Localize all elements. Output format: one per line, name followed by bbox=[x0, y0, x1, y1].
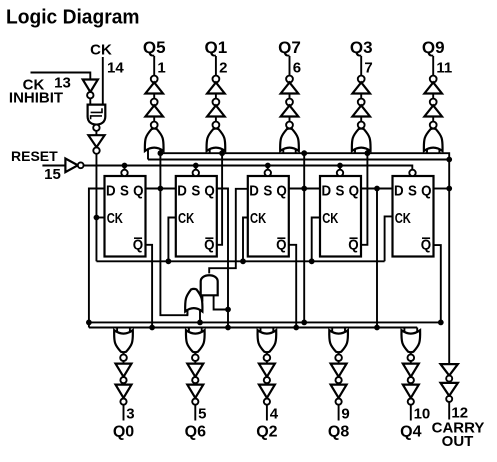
svg-text:Q: Q bbox=[276, 182, 287, 199]
wire gate to inverter bbox=[95, 131, 97, 135]
inverter (Q2 chain, 1st) bbox=[259, 364, 275, 377]
svg-text:1: 1 bbox=[157, 60, 165, 77]
svg-text:INHIBIT: INHIBIT bbox=[9, 90, 63, 107]
wire clock bus bbox=[96, 260, 384, 262]
NOR gate (Q4 chain) bbox=[401, 330, 420, 352]
node clock-CK2 bbox=[166, 258, 172, 264]
NOR left input leg (Q2) bbox=[260, 328, 262, 333]
node clock-CK1 bbox=[94, 215, 100, 221]
inverter (Q4 chain, 1st) bbox=[403, 364, 419, 377]
wire Q5 to carry bus bbox=[434, 188, 450, 190]
pin 9 wire bbox=[338, 350, 340, 421]
inverter (Q4 chain, 2nd) bbox=[403, 385, 419, 398]
wire clock riser bbox=[95, 154, 97, 262]
pin 7 wire bbox=[360, 56, 362, 129]
pin 1 wire bbox=[153, 56, 155, 129]
node Q3 bus1 bbox=[301, 320, 307, 326]
pin 6 wire bbox=[289, 56, 291, 129]
svg-text:11: 11 bbox=[436, 60, 452, 77]
inverter bubble (Q5 chain, out) bbox=[151, 76, 158, 83]
svg-text:RESET: RESET bbox=[11, 148, 58, 164]
svg-text:Logic Diagram: Logic Diagram bbox=[6, 7, 140, 29]
inverter (Q9 chain, 2nd) bbox=[424, 105, 442, 116]
inverter U-clk2 bbox=[88, 135, 104, 147]
node net-A Q3 bbox=[301, 150, 307, 156]
wire Q4bar riser bbox=[361, 153, 367, 245]
NOR bubble (Q2 chain) bbox=[264, 354, 271, 361]
wire CK3 elbow bbox=[243, 218, 248, 262]
inverter bubble (Q7 chain, out) bbox=[286, 76, 293, 83]
schmitt AND gate U-clk bbox=[88, 105, 106, 125]
inverter bubble (Q1 chain, mid) bbox=[213, 99, 220, 106]
wire Q4 tap bbox=[376, 189, 378, 328]
FF5 set bubble bbox=[409, 170, 415, 176]
node AND-Q2tap bbox=[225, 307, 231, 313]
inverter bubble (Q8 chain, out) bbox=[336, 399, 342, 405]
NOR gate (Q8 chain) bbox=[329, 330, 348, 352]
svg-text:Q5: Q5 bbox=[143, 38, 166, 57]
inverter (Q1 chain, 1st) bbox=[207, 82, 225, 93]
NOR right input leg (Q4) bbox=[416, 328, 418, 333]
inverter bubble (Q6 chain, out) bbox=[192, 399, 198, 405]
svg-text:CK: CK bbox=[90, 42, 112, 59]
wire S3 to reset net bbox=[267, 166, 269, 170]
svg-text:CK: CK bbox=[178, 211, 195, 227]
NOR bubble (Q6 chain) bbox=[192, 354, 199, 361]
svg-text:S: S bbox=[263, 182, 272, 199]
svg-text:S: S bbox=[408, 182, 417, 199]
inverter (Q0 chain, 1st) bbox=[116, 364, 132, 377]
node net-A Q4bar bbox=[365, 150, 371, 156]
inverter (Q5 chain, 2nd) bbox=[145, 105, 163, 116]
NOR gate (Q5 chain) bbox=[145, 129, 164, 151]
svg-text:15: 15 bbox=[44, 166, 61, 183]
wire Q2 tap bbox=[217, 189, 228, 328]
svg-text:Q8: Q8 bbox=[328, 424, 349, 441]
svg-text:3: 3 bbox=[126, 406, 134, 423]
NOR right input leg (Q3) bbox=[366, 149, 368, 154]
svg-text:2: 2 bbox=[219, 60, 227, 77]
node clock-CK4 bbox=[309, 258, 315, 264]
svg-text:Q: Q bbox=[421, 237, 432, 254]
inverter bubble U-reset bbox=[78, 162, 84, 168]
FF3 set bubble bbox=[265, 170, 271, 176]
inverter U-inhibit bbox=[83, 80, 98, 93]
svg-text:14: 14 bbox=[107, 60, 124, 77]
inverter bubble (Q7 chain, mid) bbox=[286, 99, 293, 106]
FF1 set bubble bbox=[121, 170, 127, 176]
NOR bubble (Q3 chain) bbox=[358, 122, 365, 129]
svg-text:Q: Q bbox=[349, 182, 360, 199]
svg-text:D: D bbox=[394, 182, 404, 199]
NOR left input leg (Q3) bbox=[354, 149, 356, 154]
wire CK INHIBIT input bbox=[31, 73, 91, 80]
svg-text:S: S bbox=[120, 182, 129, 199]
svg-text:CK: CK bbox=[322, 211, 339, 227]
node Q3 bbox=[301, 186, 307, 192]
inverter bubble (Q4 chain, mid) bbox=[408, 377, 414, 383]
NOR left input leg (Q9) bbox=[426, 149, 428, 154]
wire S1 to reset net bbox=[124, 166, 126, 170]
svg-text:Q: Q bbox=[133, 237, 144, 254]
inverter (Q7 chain, 1st) bbox=[281, 82, 299, 93]
NOR gate (Q7 chain) bbox=[280, 129, 299, 151]
inverter bubble (Q9 chain, mid) bbox=[430, 99, 437, 106]
svg-text:S: S bbox=[191, 182, 200, 199]
pin 4 wire bbox=[266, 350, 268, 421]
node bus2 Q1bar bbox=[149, 325, 155, 331]
node net-A Q2bar bbox=[219, 150, 225, 156]
svg-text:Q1: Q1 bbox=[205, 38, 228, 57]
NOR gate (Q9 chain) bbox=[424, 129, 443, 151]
NOR right input leg (Q6) bbox=[201, 328, 203, 333]
pin 10 wire bbox=[410, 350, 412, 421]
inverter bubble (Q8 chain, mid) bbox=[336, 377, 342, 383]
NOR left input leg (Q7) bbox=[282, 149, 284, 154]
wire CK1 entry bbox=[96, 217, 104, 219]
wire D1 feedback elbow bbox=[89, 189, 105, 323]
wire CK4 elbow bbox=[312, 218, 320, 262]
wire CK pin 14 bbox=[102, 57, 104, 105]
FF4 set bubble bbox=[337, 170, 343, 176]
bus1-bus2 stub bbox=[88, 322, 90, 327]
NOR bubble (Q1 chain) bbox=[213, 122, 220, 129]
flip-flop FF3 bbox=[248, 176, 289, 257]
inverter (Q8 chain, 2nd) bbox=[331, 385, 347, 398]
wire Q2bar riser bbox=[217, 153, 222, 245]
wire OR left input bbox=[186, 309, 188, 315]
wire Q3 to D4 bbox=[289, 188, 320, 190]
svg-text:Q: Q bbox=[421, 182, 432, 199]
NOR left input leg (Q5) bbox=[147, 149, 149, 160]
NOR right input leg (Q7) bbox=[295, 149, 297, 154]
svg-text:Q9: Q9 bbox=[422, 38, 445, 57]
inverter U-reset bbox=[65, 159, 77, 173]
NOR left input leg (Q1) bbox=[209, 149, 211, 154]
svg-text:Q7: Q7 bbox=[278, 38, 301, 57]
inverter (Q2 chain, 2nd) bbox=[259, 385, 275, 398]
NOR left input leg (Q6) bbox=[188, 328, 190, 333]
wire RESET input bbox=[42, 165, 65, 167]
inverter (Q6 chain, 2nd) bbox=[187, 385, 203, 398]
svg-text:Q: Q bbox=[204, 182, 215, 199]
inverter (Q0 chain, 2nd) bbox=[116, 385, 132, 398]
wire Q3 riser bbox=[303, 153, 305, 322]
NOR left input leg (Q4) bbox=[403, 328, 405, 333]
inverter bubble (Q0 chain, out) bbox=[120, 399, 126, 405]
svg-text:OUT: OUT bbox=[442, 433, 474, 450]
node bus2 Q2tap bbox=[225, 325, 231, 331]
NOR left input leg (Q8) bbox=[331, 328, 333, 333]
inverter bubble (carry, mid) bbox=[446, 376, 452, 382]
svg-text:CK: CK bbox=[395, 211, 412, 227]
inverter bubble (Q1 chain, out) bbox=[213, 76, 220, 83]
node S3 bbox=[265, 163, 271, 169]
NOR gate (Q6 chain) bbox=[186, 330, 205, 352]
svg-text:D: D bbox=[249, 182, 259, 199]
inverter bubble (Q2 chain, mid) bbox=[264, 377, 270, 383]
node S4 bbox=[337, 163, 343, 169]
node carry netB bbox=[446, 157, 452, 163]
NOR right input leg (Q5) bbox=[159, 149, 161, 154]
pin 11 wire bbox=[432, 56, 434, 129]
svg-text:Q: Q bbox=[204, 237, 215, 254]
NOR right input leg (Q8) bbox=[344, 328, 346, 333]
NOR right input leg (Q1) bbox=[221, 149, 223, 154]
NOR bubble (Q7 chain) bbox=[286, 122, 293, 129]
inverter bubble (Q9 chain, out) bbox=[430, 76, 437, 83]
svg-text:CK: CK bbox=[107, 211, 124, 227]
svg-text:10: 10 bbox=[414, 406, 431, 423]
svg-text:9: 9 bbox=[341, 406, 349, 423]
wire AND left input bbox=[201, 295, 203, 301]
wire AND right input bbox=[214, 295, 228, 309]
NOR right input leg (Q2) bbox=[272, 328, 274, 333]
flip-flop FF4 bbox=[320, 176, 361, 257]
inverter bubble (Q2 chain, out) bbox=[264, 399, 270, 405]
svg-text:4: 4 bbox=[270, 406, 279, 423]
wire AND output bbox=[209, 189, 248, 274]
node OR-bus1 bbox=[197, 320, 203, 326]
svg-text:Q4: Q4 bbox=[400, 424, 421, 441]
node bus2 Q4tap bbox=[374, 325, 380, 331]
node S2 bbox=[193, 163, 199, 169]
svg-text:S: S bbox=[336, 182, 345, 199]
NOR left input leg (Q0) bbox=[116, 328, 118, 333]
svg-text:CK: CK bbox=[250, 211, 267, 227]
node Q1 bbox=[158, 186, 164, 192]
inverter bubble (Q0 chain, mid) bbox=[120, 377, 126, 383]
svg-text:Q: Q bbox=[348, 237, 359, 254]
wire Q1 to D2 bbox=[146, 188, 176, 190]
flip-flop FF1 bbox=[105, 176, 146, 257]
wire Q5bar drop bbox=[434, 245, 441, 322]
pin 5 wire bbox=[194, 350, 196, 421]
inverter bubble (Q6 chain, mid) bbox=[192, 377, 198, 383]
and-gate U-mid-AND bbox=[201, 275, 218, 295]
inverter (Q3 chain, 1st) bbox=[352, 82, 370, 93]
net B wire (Q5 feedback bus) bbox=[148, 159, 449, 161]
node clock-CK3 bbox=[240, 258, 246, 264]
node bus2 Q3bar bbox=[293, 325, 299, 331]
wire Q1bar drop bbox=[146, 245, 153, 328]
svg-text:Q0: Q0 bbox=[113, 424, 134, 441]
inverter (Q9 chain, 1st) bbox=[424, 82, 442, 93]
NOR gate (Q1 chain) bbox=[207, 129, 226, 151]
net A wire (gate input bus) bbox=[160, 152, 439, 154]
inverter bubble (Q3 chain, mid) bbox=[358, 99, 365, 106]
flip-flop FF5 bbox=[393, 176, 434, 257]
inverter (Q6 chain, 1st) bbox=[187, 364, 203, 377]
node Q4 bbox=[374, 186, 380, 192]
pin 12 wire bbox=[448, 364, 450, 420]
wire carry bus bbox=[439, 153, 449, 364]
or-gate U-mid-OR bbox=[185, 289, 202, 312]
wire Q3bar drop bbox=[289, 245, 296, 328]
bus2 wire bbox=[89, 327, 417, 329]
wire S2 to reset net bbox=[195, 166, 197, 170]
schmitt AND output bubble bbox=[93, 125, 99, 131]
svg-text:D: D bbox=[322, 182, 332, 199]
node bus1 right bbox=[438, 320, 444, 326]
node gate1 input bbox=[158, 150, 164, 156]
node S1 bbox=[122, 163, 128, 169]
wire inhibit to gate bbox=[89, 98, 91, 105]
NOR right input leg (Q0) bbox=[129, 328, 131, 333]
inverter bubble (Q4 chain, out) bbox=[408, 399, 414, 405]
NOR right input leg (Q9) bbox=[438, 149, 440, 154]
NOR bubble (Q0 chain) bbox=[120, 354, 127, 361]
NOR gate (Q2 chain) bbox=[258, 330, 277, 352]
FF2 set bubble bbox=[193, 170, 199, 176]
inverter bubble (carry, out) bbox=[446, 396, 452, 402]
svg-text:Q2: Q2 bbox=[256, 424, 277, 441]
inverter (carry, 1st) bbox=[441, 364, 458, 376]
inverter bubble (Q5 chain, mid) bbox=[151, 99, 158, 106]
inverter bubble U-clk2 bbox=[93, 147, 99, 153]
svg-text:Q3: Q3 bbox=[350, 38, 373, 57]
NOR gate (Q0 chain) bbox=[114, 330, 133, 352]
inverter (Q8 chain, 1st) bbox=[331, 364, 347, 377]
svg-text:Q: Q bbox=[276, 237, 287, 254]
NOR bubble (Q5 chain) bbox=[151, 122, 158, 129]
pin 2 wire bbox=[215, 56, 217, 129]
inverter bubble U-inhibit bbox=[87, 92, 93, 98]
svg-text:D: D bbox=[106, 182, 116, 199]
bus1 wire (Q5bar feedback) bbox=[89, 321, 441, 323]
node carry Q5 bbox=[446, 186, 452, 192]
inverter (carry, 2nd) bbox=[441, 383, 458, 396]
wire S4 to reset net bbox=[339, 166, 341, 170]
inverter (Q5 chain, 1st) bbox=[145, 82, 163, 93]
svg-text:Q6: Q6 bbox=[185, 424, 206, 441]
NOR gate (Q3 chain) bbox=[352, 129, 371, 151]
flip-flop FF2 bbox=[176, 176, 217, 257]
inverter bubble (Q3 chain, out) bbox=[358, 76, 365, 83]
inverter (Q1 chain, 2nd) bbox=[207, 105, 225, 116]
NOR bubble (Q8 chain) bbox=[335, 354, 342, 361]
net RESET wire bbox=[84, 166, 413, 171]
svg-text:Q: Q bbox=[133, 182, 144, 199]
svg-text:D: D bbox=[177, 182, 187, 199]
wire Q1 riser/tap bbox=[160, 153, 187, 315]
pin 3 wire bbox=[123, 350, 125, 421]
svg-text:7: 7 bbox=[364, 60, 372, 77]
svg-text:6: 6 bbox=[293, 60, 301, 77]
svg-text:5: 5 bbox=[198, 406, 206, 423]
wire OR right input bbox=[199, 309, 201, 322]
wire Q4 to D5 bbox=[361, 188, 393, 190]
NOR bubble (Q9 chain) bbox=[430, 122, 437, 129]
inverter (Q3 chain, 2nd) bbox=[352, 105, 370, 116]
NOR bubble (Q4 chain) bbox=[408, 354, 415, 361]
wire CK5 elbow bbox=[385, 216, 393, 261]
inverter (Q7 chain, 2nd) bbox=[281, 105, 299, 116]
wire CK2 elbow bbox=[168, 218, 175, 262]
node bus1 left bbox=[86, 320, 92, 326]
